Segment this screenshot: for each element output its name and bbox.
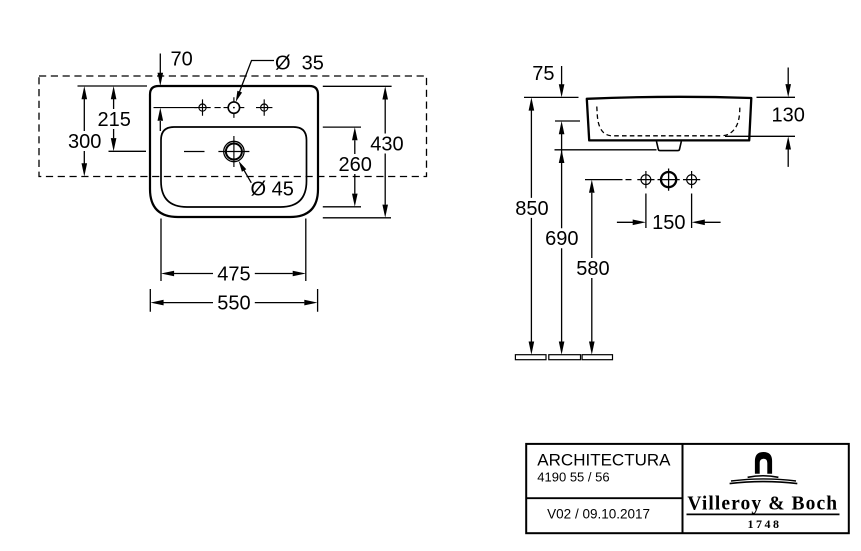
rim top reference line side xyxy=(524,96,579,98)
top reference tick right xyxy=(323,85,392,87)
dimension 215 line xyxy=(113,99,115,138)
dimension 430 line xyxy=(384,100,386,205)
svg-text:150: 150 xyxy=(652,212,685,234)
basin bottom tick 430 xyxy=(323,217,391,219)
inner bowl outline xyxy=(161,127,307,207)
logo upper long water curve xyxy=(731,479,796,481)
dimension 475 line xyxy=(174,273,293,275)
label diameter 45 leader xyxy=(241,165,251,183)
dimension 850 line xyxy=(530,111,532,342)
logo short water curve xyxy=(748,476,779,478)
dimension 150 line xyxy=(617,221,721,223)
svg-text:215: 215 xyxy=(98,109,131,131)
bowl bottom tick 260 xyxy=(323,206,361,208)
svg-text:300: 300 xyxy=(68,131,101,153)
svg-text:580: 580 xyxy=(576,258,609,280)
tap hole centreline side xyxy=(585,179,632,181)
logo lower long water curve xyxy=(730,482,798,484)
title block border xyxy=(526,444,849,533)
drain hole xyxy=(184,136,249,167)
svg-text:130: 130 xyxy=(772,105,805,127)
reference line 690 top xyxy=(555,149,657,151)
extension lines 550 xyxy=(150,289,317,312)
dimension 580 line xyxy=(591,193,593,342)
right wall hole xyxy=(683,171,700,188)
svg-text:V02 / 09.10.2017: V02 / 09.10.2017 xyxy=(547,507,650,522)
tick 130 top xyxy=(757,96,796,98)
drain centreline tick xyxy=(109,150,147,152)
svg-text:Villeroy & Boch: Villeroy & Boch xyxy=(687,494,838,515)
dimension 550 line xyxy=(164,302,305,304)
svg-text:850: 850 xyxy=(515,198,548,220)
left wall hole xyxy=(637,171,654,188)
svg-text:70: 70 xyxy=(170,49,192,71)
svg-text:ARCHITECTURA: ARCHITECTURA xyxy=(537,451,671,470)
dimension 130 line xyxy=(787,68,789,167)
svg-text:550: 550 xyxy=(217,293,250,315)
centre wall hole xyxy=(658,169,680,191)
title block vertical divider xyxy=(682,444,684,533)
svg-text:75: 75 xyxy=(532,63,554,85)
bowl top tick 260 xyxy=(323,126,361,128)
tick 130 bottom xyxy=(725,135,795,137)
svg-text:1748: 1748 xyxy=(748,517,782,531)
basin side profile outline xyxy=(587,97,752,141)
dimension 260 line xyxy=(354,140,356,194)
basin interior dashed outline xyxy=(597,107,740,136)
drain fitting xyxy=(657,142,682,151)
logo underline xyxy=(687,513,840,515)
label diameter 35 leader xyxy=(238,61,274,97)
svg-text:430: 430 xyxy=(370,133,403,155)
centre tap hole xyxy=(224,97,245,118)
svg-text:Ø 35: Ø 35 xyxy=(275,52,324,74)
svg-text:260: 260 xyxy=(339,154,372,176)
floor line segments xyxy=(515,355,612,360)
svg-text:690: 690 xyxy=(545,228,578,250)
dimension 70 lines xyxy=(159,54,161,132)
svg-text:Ø 45: Ø 45 xyxy=(251,179,294,201)
dashed installation outline xyxy=(39,76,427,177)
dimension 690 line xyxy=(561,134,563,342)
left tap hole crosshair xyxy=(194,99,210,115)
svg-text:475: 475 xyxy=(217,263,250,285)
rim top reference tick left xyxy=(78,85,148,87)
dimension 75 line xyxy=(561,66,563,85)
title block horizontal divider xyxy=(526,497,682,499)
extension lines 475 xyxy=(161,219,306,282)
tap hole centreline xyxy=(154,107,221,109)
svg-text:4190 55 / 56: 4190 55 / 56 xyxy=(537,469,609,484)
basin outer outline top view xyxy=(150,86,318,217)
tick 75 bottom xyxy=(555,120,580,122)
dimension 300 line xyxy=(83,99,85,164)
logo aqueduct arch icon xyxy=(755,452,772,474)
extension lines 150 xyxy=(646,194,692,229)
right tap hole crosshair xyxy=(256,99,272,115)
